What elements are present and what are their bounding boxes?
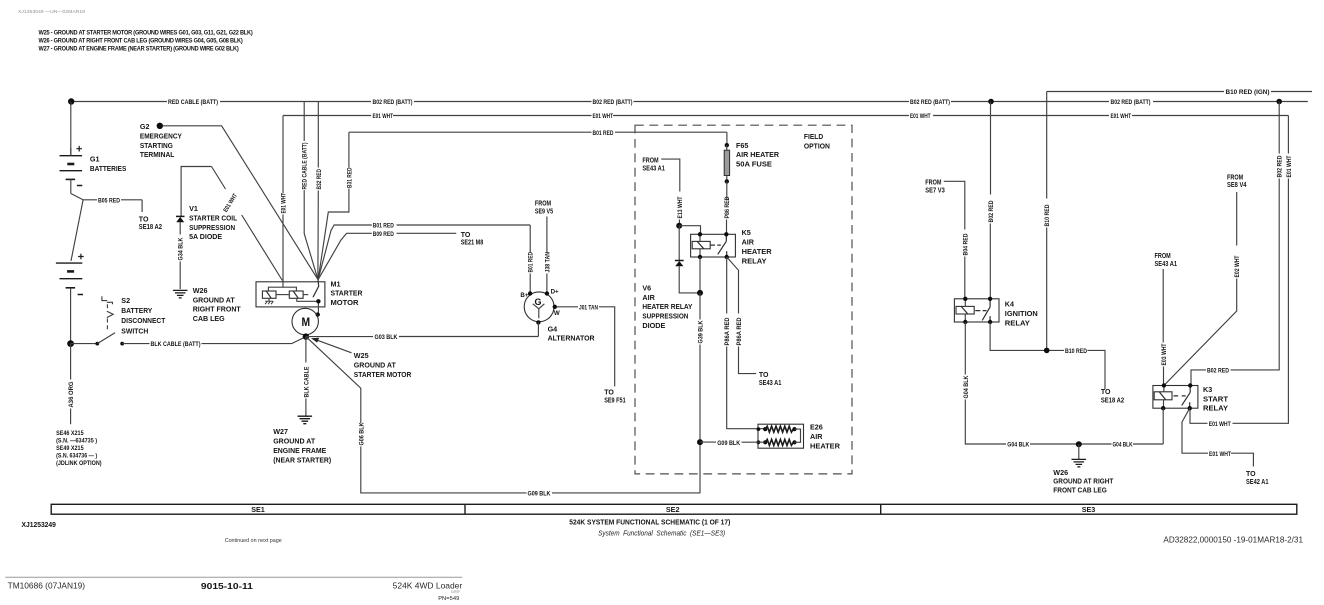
svg-text:FROM: FROM [1227,174,1243,181]
svg-text:W26: W26 [193,286,208,295]
svg-text:B+: B+ [520,292,528,299]
svg-text:K4: K4 [1005,300,1014,309]
svg-text:E01 WHT: E01 WHT [593,113,614,120]
wire K3 coil ground [1162,408,1164,444]
svg-text:W25 - GROUND AT STARTER MOTOR: W25 - GROUND AT STARTER MOTOR (GROUND WI… [39,30,253,37]
wire B10 RED vertical [1046,92,1048,351]
motor M circle [292,308,318,334]
svg-text:W27: W27 [273,427,288,436]
svg-text:J01 TAN: J01 TAN [579,304,598,311]
svg-text:OPTION: OPTION [804,143,830,150]
svg-text:System Functional Schematic: System Functional Schematic (SE1—SE3) [598,531,725,538]
svg-text:SE3: SE3 [1082,505,1096,514]
svg-text:TERMINAL: TERMINAL [140,150,175,159]
svg-text:G1: G1 [90,155,100,164]
svg-text:STARTER: STARTER [331,289,364,298]
svg-text:P86 RED: P86 RED [724,196,731,218]
wire to K5 coil [679,226,700,235]
wire V6 to coil return [679,266,700,293]
svg-text:J38 TAN: J38 TAN [544,252,551,273]
svg-text:B10 RED: B10 RED [1065,348,1087,355]
node W26 ground tap [1076,441,1082,447]
node fuse top [725,143,729,147]
wire J38 TAN [546,217,548,294]
svg-text:CAB LEG: CAB LEG [193,314,225,323]
svg-text:G03 BLK: G03 BLK [375,334,398,341]
svg-text:G2: G2 [140,122,150,131]
svg-text:B09 RED: B09 RED [373,231,394,238]
svg-text:P86A RED: P86A RED [724,317,731,345]
svg-text:AIR: AIR [642,293,655,302]
ground W26 at V1 [173,290,188,298]
wire G2 to starter [163,126,318,280]
svg-text:RED CABLE (BATT): RED CABLE (BATT) [168,99,218,106]
terminal K3 bottom-left [1161,406,1165,410]
wire G09 BLK [700,441,765,443]
wire RED CABLE (BATT) vertical [304,102,318,280]
wire coil link [276,294,289,296]
arrow W25 [311,338,352,353]
svg-text:B02 RED: B02 RED [988,200,995,222]
svg-text:ALTERNATOR: ALTERNATOR [548,334,596,343]
ground W26 right [1072,444,1087,467]
svg-text:STARTER MOTOR: STARTER MOTOR [354,370,412,379]
svg-text:524K SYSTEM FUNCTIONAL SCHEMAT: 524K SYSTEM FUNCTIONAL SCHEMATIC (1 OF 1… [569,518,731,527]
coil K5 [692,241,721,248]
svg-text:SE8 V4: SE8 V4 [1227,182,1247,189]
switch S2 [71,296,125,345]
alternator G4 [524,292,554,322]
terminal K5 bottom-left [698,255,702,259]
svg-text:TO: TO [461,232,471,239]
wire E01 WHT right [1190,116,1288,424]
svg-text:TO: TO [759,372,769,379]
svg-text:V6: V6 [642,283,651,292]
svg-text:TO: TO [139,216,149,223]
svg-text:SE18 A2: SE18 A2 [1101,397,1124,404]
wire E01 WHT to SE42 [1182,408,1253,466]
svg-text:110919: 110919 [451,589,460,593]
solenoid coil 1 [262,291,276,298]
svg-text:D+: D+ [551,288,559,295]
svg-text:SE21 M8: SE21 M8 [461,240,484,247]
svg-text:SE18 A2: SE18 A2 [139,224,162,231]
svg-text:M: M [302,317,311,329]
wire G04 BLK [965,322,1163,444]
svg-text:TO: TO [1246,471,1256,478]
svg-text:B32 RED: B32 RED [316,169,323,190]
terminal K4 top-right [988,297,992,301]
svg-text:RIGHT FRONT: RIGHT FRONT [193,305,242,314]
wire G06 BLK [306,337,701,493]
wire E01 WHT diode diagonal [212,167,283,281]
svg-text:B05 RED: B05 RED [98,197,120,204]
label SE46 X215 block [56,430,102,467]
svg-text:SE43 A1: SE43 A1 [759,380,782,387]
svg-text:MOTOR: MOTOR [331,298,360,307]
svg-text:TM10686 (07JAN19): TM10686 (07JAN19) [8,582,86,591]
svg-text:SE43 A1: SE43 A1 [1155,261,1178,268]
svg-text:SE7 V3: SE7 V3 [925,188,945,195]
svg-text:B31 RED: B31 RED [346,167,353,188]
svg-text:GROUND AT RIGHT: GROUND AT RIGHT [1053,477,1114,486]
svg-text:(S.N. 634736 — ): (S.N. 634736 — ) [56,453,97,460]
svg-text:SE49 X215: SE49 X215 [56,445,84,452]
wire B09 RED [318,233,456,279]
svg-text:W25: W25 [354,351,369,360]
wire BLK CABLE (BATT) [122,337,306,344]
coil K4 [956,306,987,314]
svg-text:HEATER RELAY: HEATER RELAY [642,302,692,311]
diode V1 branch wire [181,167,211,217]
svg-text:IGNITION: IGNITION [1005,309,1038,318]
wire J01 TAN [557,307,615,387]
svg-text:EMERGENCY: EMERGENCY [140,131,182,140]
wire G39 BLK [699,293,701,493]
svg-text:DISCONNECT: DISCONNECT [121,316,166,325]
node solenoid output [316,299,320,303]
ground W27 [298,416,313,424]
svg-text:B01 RED: B01 RED [373,223,394,230]
svg-text:B02 RED (BATT): B02 RED (BATT) [593,99,633,106]
svg-text:SE2: SE2 [666,505,680,514]
solenoid coil 2 [289,291,303,298]
svg-text:RELAY: RELAY [1203,404,1228,413]
wire B04 RED [944,181,965,298]
svg-text:SWITCH: SWITCH [121,326,148,335]
switch K5 [718,234,727,257]
svg-text:FROM: FROM [1155,253,1171,260]
svg-text:K3: K3 [1203,385,1212,394]
svg-text:START: START [1203,394,1229,403]
wire E02 WHT [1164,192,1237,386]
terminal K4 top-left [963,297,967,301]
wire bus B10 RED (IGN) [1047,91,1312,93]
svg-text:B02 RED: B02 RED [1207,368,1229,375]
svg-text:B10 RED: B10 RED [1044,204,1051,226]
wire K5 coil return [699,257,701,293]
svg-text:G39 BLK: G39 BLK [698,320,705,343]
svg-text:50A FUSE: 50A FUSE [736,159,772,168]
switch K4 [982,299,990,322]
svg-text:G4: G4 [548,325,558,334]
svg-text:B02 RED: B02 RED [1277,155,1284,177]
wire B01 RED to alternator [318,225,530,279]
fuse F65 [724,145,729,181]
svg-text:B01 RED: B01 RED [528,252,535,273]
svg-text:BATTERY: BATTERY [121,306,152,315]
svg-text:AIR HEATER: AIR HEATER [736,150,780,159]
svg-text:W26 - GROUND AT RIGHT FRONT CA: W26 - GROUND AT RIGHT FRONT CAB LEG (GRO… [39,38,243,45]
terminal K4 bottom-right [988,320,992,324]
starter motor M1 box [256,282,325,307]
svg-text:GROUND AT: GROUND AT [354,360,397,369]
wire E03 WHT [1162,269,1164,386]
node battery positive bus [68,98,74,104]
wire A36 ORG [70,344,72,425]
terminal K5 top-right [724,232,728,236]
svg-text:G34 BLK: G34 BLK [178,237,185,260]
svg-text:(S.N. —634735 ): (S.N. —634735 ) [56,438,97,445]
svg-text:HEATER: HEATER [810,442,841,451]
svg-text:BLK CABLE (BATT): BLK CABLE (BATT) [151,341,201,348]
svg-text:E01 WHT: E01 WHT [281,193,288,214]
wire battery jog [71,194,83,261]
svg-text:XJ1253249: XJ1253249 [22,520,56,529]
svg-text:FIELD: FIELD [804,134,823,141]
terminal K5 bottom-right [725,255,729,259]
wire solenoid output [297,298,319,314]
svg-text:F65: F65 [736,141,748,150]
wire P86A RED to SE43 [727,257,756,374]
node fuse bottom [725,179,729,183]
svg-text:B10 RED (IGN): B10 RED (IGN) [1226,89,1270,96]
node battery negative [67,340,74,347]
svg-text:BATTERIES: BATTERIES [90,164,127,173]
svg-text:SE46 X215: SE46 X215 [56,430,84,437]
node G09 junction [697,439,703,445]
wire G4 ground [537,322,539,336]
node starter ground [303,333,309,339]
svg-text:SUPPRESSION: SUPPRESSION [189,223,235,232]
node B10 junction [1044,348,1050,354]
section bar SE1 SE2 SE3 [51,504,1297,514]
terminal K3 bottom-right [1188,406,1192,410]
svg-text:PN=549: PN=549 [438,596,459,602]
svg-text:E01 WHT: E01 WHT [1286,155,1293,177]
svg-text:G04 BLK: G04 BLK [1113,442,1133,449]
wire B31 RED [318,132,349,279]
svg-text:DIODE: DIODE [642,321,665,330]
svg-text:G04 BLK: G04 BLK [963,375,970,398]
svg-text:B02 RED (BATT): B02 RED (BATT) [910,99,950,106]
svg-text:E02 WHT: E02 WHT [1234,255,1241,277]
node B02 at K4 drop [988,99,994,105]
relay K5 box [691,234,736,257]
svg-text:SE43 A1: SE43 A1 [642,165,665,172]
wire B32 RED vertical [317,102,319,280]
wire G03 BLK [306,336,539,338]
svg-text:FROM: FROM [642,158,658,165]
wire B02 RED right [1191,102,1279,386]
svg-text:FROM: FROM [925,180,941,187]
battery G1 [56,146,84,344]
svg-text:TO: TO [1101,389,1111,396]
svg-text:(JDLINK OPTION): (JDLINK OPTION) [56,460,102,467]
switch contact M1 [303,279,319,297]
svg-text:G09 BLK: G09 BLK [717,440,740,447]
terminal G2 [157,123,163,129]
svg-text:E01 WHT: E01 WHT [1209,421,1231,428]
switch K3 [1182,386,1191,409]
svg-text:B04 RED: B04 RED [962,233,969,255]
heater element bottom [757,439,797,445]
wire B02 RED to K4 [989,102,991,299]
svg-text:(NEAR STARTER): (NEAR STARTER) [273,456,332,465]
wire E01 WHT vertical to starter [282,116,284,288]
svg-text:E01 WHT: E01 WHT [373,113,394,120]
svg-text:B01 RED: B01 RED [593,130,614,137]
svg-text:XJ1253049 —UN—02MAR19: XJ1253049 —UN—02MAR19 [18,9,85,14]
air heater E26 box [758,424,804,448]
wire bus B01 RED [349,131,727,133]
svg-text:W27 - GROUND AT ENGINE FRAME (: W27 - GROUND AT ENGINE FRAME (NEAR START… [39,45,239,52]
svg-text:E26: E26 [810,423,823,432]
svg-text:Continued on next page: Continued on next page [225,538,282,544]
svg-text:SE1: SE1 [251,505,265,514]
svg-text:5A DIODE: 5A DIODE [189,232,222,241]
svg-text:GROUND AT: GROUND AT [193,295,236,304]
svg-text:AD32822,0000150 -19-01MAR18-2/: AD32822,0000150 -19-01MAR18-2/31 [1163,536,1303,545]
svg-text:P86A RED: P86A RED [736,317,743,345]
heater element top [757,426,797,432]
battery G1 feed wire [70,102,72,156]
svg-text:K5: K5 [742,228,751,237]
terminal W [553,305,557,309]
svg-text:B02 RED (BATT): B02 RED (BATT) [1111,99,1151,106]
terminal K4 bottom-left [963,320,967,324]
relay K4 box [954,299,999,322]
wire heater link [795,429,801,442]
footer rule [5,576,462,578]
wire coil bracket [268,287,296,291]
svg-text:STARTING: STARTING [140,141,173,150]
svg-text:SUPPRESSION: SUPPRESSION [642,312,688,321]
relay K3 box [1153,386,1198,409]
svg-text:W: W [554,310,560,317]
wire B05 RED [83,200,142,212]
wire K5 coil stubs [699,234,701,257]
diode V6 [675,261,684,267]
svg-text:B02 RED (BATT): B02 RED (BATT) [373,99,413,106]
svg-text:A36 ORG: A36 ORG [68,381,75,407]
svg-text:E13 WHT: E13 WHT [677,196,684,218]
wire B10 RED from K4 [990,322,1105,389]
svg-text:RELAY: RELAY [742,256,767,265]
svg-text:SE9 F51: SE9 F51 [604,397,626,404]
svg-text:G04 BLK: G04 BLK [1007,442,1029,449]
svg-text:S2: S2 [121,296,130,305]
wire K4 coil stubs [964,299,966,322]
field option dashed box [635,125,852,474]
wire B01 RED drop to alternator [529,225,531,294]
terminal G4 ground [536,320,540,324]
svg-text:ENGINE FRAME: ENGINE FRAME [273,446,326,455]
coil K3 [1154,392,1186,400]
svg-text:E01 WHT: E01 WHT [910,113,931,120]
terminal K5 top-left [698,232,702,236]
svg-text:M1: M1 [331,279,341,288]
wire K3 coil stubs [1163,386,1165,409]
svg-text:E01 WHT: E01 WHT [1209,451,1231,458]
node E13 junction [676,223,682,229]
svg-text:HEATER: HEATER [742,247,773,256]
svg-text:GROUND AT: GROUND AT [273,437,316,446]
diode V1 [176,216,185,222]
terminal D+ [545,291,549,295]
wire bus B02 RED (BATT) top [71,101,1308,103]
svg-text:AIR: AIR [810,432,823,441]
svg-text:TO: TO [604,390,614,397]
wire BLK CABLE to ground [305,337,307,416]
wire B01 RED to fuse [726,132,728,145]
wire E13 WHT [661,159,680,226]
svg-text:E01 WHT: E01 WHT [1111,113,1132,120]
svg-text:9015-10-11: 9015-10-11 [201,581,253,591]
node coil return [697,290,703,296]
svg-text:RED CABLE (BATT): RED CABLE (BATT) [302,143,309,190]
terminal B+ [528,291,532,295]
terminal K3 top-right [1188,383,1192,387]
svg-text:SE42 A1: SE42 A1 [1246,479,1269,486]
svg-text:FRONT CAB LEG: FRONT CAB LEG [1053,485,1107,494]
svg-text:FROM: FROM [535,201,551,208]
svg-text:RELAY: RELAY [1005,319,1030,328]
svg-text:G09 BLK: G09 BLK [528,491,551,498]
svg-text:SE9 V5: SE9 V5 [535,209,553,216]
chassis ground in M1 [265,298,273,304]
svg-text:BLK CABLE: BLK CABLE [303,367,310,398]
wire P86 RED [726,181,728,234]
svg-text:E03 WHT: E03 WHT [1161,343,1168,365]
svg-text:AIR: AIR [742,237,755,246]
svg-text:G06 BLK: G06 BLK [358,422,365,445]
svg-text:V1: V1 [189,204,198,213]
svg-text:STARTER COIL: STARTER COIL [189,213,238,222]
wire bus E01 WHT [283,115,1288,117]
wire P86A RED to heater [727,257,765,429]
node motor terminal [316,312,320,316]
diode V6 branch [678,226,680,261]
node B02 at K3 drop [1276,99,1282,105]
terminal K3 top-left [1162,383,1166,387]
wire G34 BLK [179,222,181,289]
